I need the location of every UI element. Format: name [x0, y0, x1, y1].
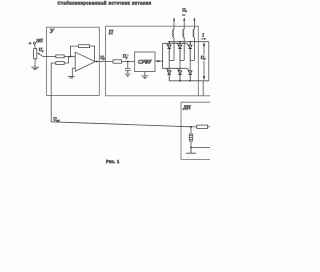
node rail VS3	[189, 41, 191, 43]
node bottom rail VS6	[189, 80, 191, 82]
block DN (voltage divider) box	[181, 102, 211, 159]
svg-text:ЭП: ЭП	[36, 38, 43, 43]
phase line A	[173, 20, 175, 60]
svg-text:П: П	[108, 30, 114, 36]
resistor R4 (op-amp feedback)	[79, 45, 90, 48]
potentiometer R1 body	[34, 49, 37, 59]
wire mid stem VS5	[179, 60, 181, 71]
resistor R5 (input of P block)	[113, 60, 122, 63]
wire summing node up to feedback resistor	[71, 46, 79, 56]
wire lower node to image edge	[191, 146, 211, 148]
wire gate lead thyristor VS4	[166, 68, 168, 71]
voltage arrow Uya	[203, 44, 205, 79]
wire node down to R7	[190, 127, 192, 134]
wire terminal to potentiometer	[34, 44, 37, 48]
thyristor VS1	[167, 42, 171, 61]
wire feedback line Uoc	[51, 122, 191, 127]
wire R6 stub to edge	[208, 126, 211, 128]
svg-text:I: I	[201, 33, 204, 38]
wire phase C junction jog	[190, 59, 194, 61]
phase line C	[193, 20, 195, 60]
wire gate lead thyristor VS1	[166, 43, 168, 47]
svg-text:Uз: Uз	[39, 47, 44, 53]
node divider top	[190, 126, 192, 128]
terminal circle EP	[34, 42, 36, 44]
ground below potentiometer	[31, 59, 39, 70]
phase terminal arrow A	[173, 17, 175, 21]
thyristor VS4	[167, 71, 171, 81]
block U (amplifier) box	[46, 27, 99, 95]
svg-text:Стабилизированный источник пит: Стабилизированный источник питания	[57, 1, 151, 6]
node summing junction	[70, 56, 72, 58]
svg-text:Рис. 1: Рис. 1	[106, 159, 120, 164]
wire top rail (negative bus)	[169, 41, 209, 43]
wire right edge vertical joining rails	[208, 42, 210, 81]
wire bottom gate bus	[162, 67, 186, 69]
resistor R7 (divider vertical)	[189, 134, 192, 141]
box SUFU (pulse-phase control unit)	[135, 52, 155, 72]
node op-amp output	[96, 61, 98, 63]
svg-text:~: ~	[182, 12, 185, 18]
wire gate lead thyristor VS3	[187, 43, 190, 47]
wire feedback riser down	[50, 63, 52, 122]
ground at op-amp noninverting input	[68, 76, 75, 78]
wire top gate bus	[164, 42, 187, 44]
svg-text:Uос: Uос	[53, 117, 60, 123]
node rail VS2	[179, 41, 181, 43]
phase terminal arrow B	[183, 17, 185, 21]
wire SUFU output with arrow	[155, 60, 162, 62]
wire gate riser vertical	[162, 43, 163, 68]
svg-text:Uу': Uу'	[123, 54, 129, 60]
ground below SUFU	[141, 72, 148, 79]
svg-text:СУФУ: СУФУ	[138, 60, 152, 65]
wire R3 right end up to summing node	[64, 57, 70, 63]
wire bottom rail (positive bus)	[169, 80, 209, 82]
svg-text:ДН: ДН	[182, 105, 191, 111]
svg-text:+: +	[29, 41, 32, 46]
wire wiper to op-amp input resistor	[43, 55, 56, 57]
svg-text:Uя: Uя	[201, 55, 206, 61]
capacitor C1	[125, 62, 131, 74]
svg-text:У: У	[50, 29, 55, 35]
wire gate lead thyristor VS2	[177, 43, 179, 47]
wire R7 to lower node	[190, 141, 192, 147]
wire phase B junction jog	[180, 59, 184, 61]
wire R5 to SUFU	[122, 61, 135, 63]
wire resistor to summing node	[64, 55, 75, 57]
ground bar below divider	[186, 147, 196, 153]
svg-text:Uу: Uу	[100, 55, 105, 61]
wire output drop to lower horizontal	[202, 81, 204, 96]
thyristor VS3	[188, 42, 192, 61]
wire lower horizontal to image edge	[198, 95, 210, 97]
ground below capacitor C1	[125, 74, 131, 77]
resistor R2 (input from Uz)	[56, 55, 64, 58]
thyristor VS2	[178, 42, 182, 61]
resistor R3 (feedback input from Uoc)	[56, 62, 64, 65]
node bottom rail VS5	[179, 80, 181, 82]
op-amp U1 triangle	[75, 52, 95, 71]
node divider bottom	[190, 146, 192, 148]
wire R3 left end to feedback riser	[51, 62, 56, 64]
node gate riser junction	[162, 60, 163, 61]
wire op-amp output	[95, 61, 113, 63]
potentiometer wiper arrow	[39, 54, 43, 57]
phase terminal arrow C	[193, 17, 195, 21]
node Uu'	[127, 61, 129, 63]
inductor L2	[183, 29, 184, 37]
wire gate lead thyristor VS6	[187, 68, 190, 71]
wire op-amp noninverting input stub	[72, 68, 75, 76]
inductor L3	[193, 29, 194, 37]
wire feedback resistor to output	[90, 46, 95, 61]
thyristor VS6	[188, 71, 192, 81]
phase line B	[183, 20, 185, 60]
wire mid stem VS6	[189, 60, 191, 71]
wire mid stem VS4	[168, 60, 170, 71]
block P (converter) box	[106, 26, 199, 96]
inductor L1	[173, 29, 174, 37]
thyristor VS5	[178, 71, 182, 81]
label Uya	[200, 55, 207, 61]
resistor R6 (divider horizontal)	[197, 125, 208, 128]
node rail VS1	[168, 41, 170, 43]
wire node to divider resistor	[191, 126, 197, 128]
wire phase A junction jog	[169, 59, 174, 61]
wire gate lead thyristor VS5	[177, 68, 179, 71]
